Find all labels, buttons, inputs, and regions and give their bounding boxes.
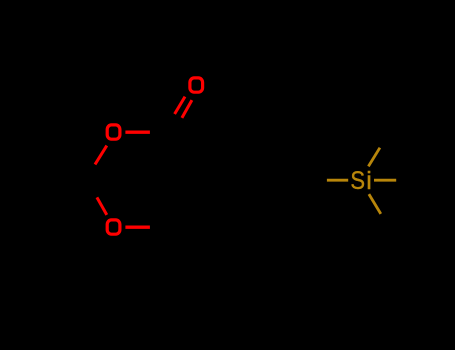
wire bond O1-C4 red half (horizontal) [125, 131, 149, 134]
wire double bond C4=O2 red half, line 1 [175, 97, 185, 114]
svg-text:i: i [366, 167, 372, 195]
wire bond O3-C2 red half (diagonal up-left) [97, 197, 107, 215]
wire bond O3-C6 red half (horizontal) [125, 226, 149, 229]
wire bond Si-Csp olive half (left horizontal) [327, 179, 348, 182]
wire bond Si-CH3 olive half (up-right diagonal) [368, 148, 380, 167]
wire bond Si-CH3 olive half (down-right diagonal) [369, 194, 381, 214]
wire bond Si-CH3 olive half (right horizontal) [374, 179, 396, 182]
atom O3 (ring oxygen, bottom-left) [107, 220, 120, 234]
atom O2 (carbonyl oxygen) [190, 78, 203, 92]
atom O1 (ring oxygen, top-left) [107, 125, 120, 139]
wire double bond C4=O2 red half, line 2 [182, 100, 192, 118]
wire bond O1-C2 red half (diagonal down-left) [95, 146, 107, 165]
svg-text:S: S [350, 167, 365, 195]
